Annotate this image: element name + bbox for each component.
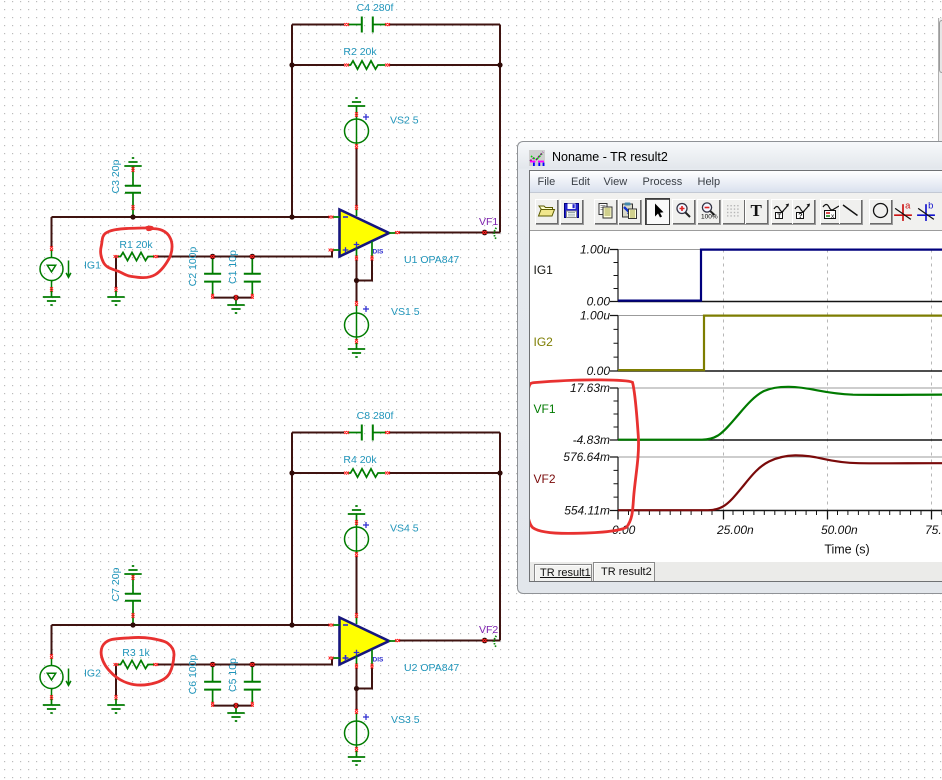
axis labels IG2 panel	[580, 309, 610, 379]
scrollbar fragment at top-right edge of schematic editor	[938, 18, 942, 141]
node: junction cap gnd	[233, 295, 239, 301]
svg-text:17.63m: 17.63m	[570, 381, 610, 395]
voltage probe VF2 arc	[494, 636, 496, 648]
wire: feedback right vertical down to output	[499, 433, 501, 641]
pin marker C7 top	[132, 575, 135, 580]
wire: op-amp output to feedback node	[398, 640, 500, 642]
pin marker IG1 bottom	[50, 287, 53, 292]
svg-text:IG2: IG2	[534, 335, 554, 349]
pin marker C4 left	[344, 23, 349, 26]
svg-text:C8 280f: C8 280f	[357, 410, 394, 422]
ground under IG1	[43, 291, 60, 305]
pin marker C3 bottom	[132, 205, 135, 210]
pin marker C7 bottom	[132, 613, 135, 618]
svg-text:R3 1k: R3 1k	[122, 647, 150, 659]
wire: R2 right	[389, 64, 500, 66]
wire: IG2 top lead	[51, 625, 53, 655]
current source IG1	[40, 250, 71, 292]
ground under IG2	[43, 699, 60, 713]
pin marker C1 bottom	[251, 294, 254, 299]
pin marker R3 ground end	[115, 695, 118, 700]
svg-text:VS2 5: VS2 5	[390, 115, 419, 127]
ground under C2/C1	[227, 299, 244, 313]
wire: C8 right to feedback right vertical	[389, 432, 500, 434]
svg-text:50.00n: 50.00n	[821, 523, 858, 537]
pin marker C2 bottom	[211, 294, 214, 299]
wire: VS2 to op-amp V+ pin	[356, 148, 358, 206]
pin marker R1 right	[153, 255, 158, 258]
wire: VS4 to op-amp V+ pin	[356, 556, 358, 614]
pin marker VS3 top	[355, 709, 358, 714]
svg-text:?: ?	[798, 213, 802, 220]
wire: op-amp output to feedback node	[398, 232, 500, 234]
pin marker U2 inverting input	[329, 624, 334, 627]
wire: IG1 top lead	[51, 217, 53, 247]
pin marker VS1 bottom	[355, 339, 358, 344]
ground under VS3	[348, 751, 365, 765]
ground under C6/C5	[227, 707, 244, 721]
capacitor C7	[125, 580, 141, 623]
pin marker U1 non-inverting input	[329, 249, 334, 252]
svg-text:0.00: 0.00	[587, 364, 611, 378]
wire: C4 right to feedback right vertical	[389, 24, 500, 26]
node: junction V- net	[354, 278, 359, 283]
svg-text:C5 10p: C5 10p	[227, 658, 239, 692]
axis frame IG2 panel	[610, 316, 942, 372]
pin marker VS4 top	[355, 520, 358, 525]
wire: input net from IG2 to op-amp inverting input	[52, 624, 331, 626]
pin marker C8 right	[385, 431, 390, 434]
capacitor C3	[125, 172, 141, 215]
wire: to C4 left	[292, 24, 344, 26]
svg-text:R2 20k: R2 20k	[343, 46, 377, 58]
svg-text:VF2: VF2	[479, 624, 498, 636]
wire: bottom link C6-C5	[213, 705, 253, 707]
pin marker IG2 top	[50, 654, 53, 659]
svg-text:576.64m: 576.64m	[563, 450, 610, 464]
window icon	[529, 150, 545, 166]
op-amp U2	[332, 616, 397, 667]
wire: DIS pin jog	[357, 667, 373, 689]
annotation: red hand-drawn loop around VF1/VF2 axis labels	[527, 380, 639, 534]
capacitor C1	[244, 258, 261, 296]
pin marker C3 top	[132, 167, 135, 172]
pin marker U2 non-inverting input	[329, 657, 334, 660]
node: junction Cs/input	[130, 214, 135, 219]
svg-text:Time (s): Time (s)	[824, 543, 869, 557]
svg-text:VS1 5: VS1 5	[391, 306, 420, 318]
svg-text:100%: 100%	[701, 214, 718, 221]
waveform IG1 trace	[618, 250, 942, 301]
pin marker U1 output	[395, 231, 400, 234]
waveform VF1 trace	[618, 387, 942, 440]
wire: to R4 left	[292, 472, 344, 474]
wire: R1 left lead down	[115, 257, 117, 289]
pin marker VS4 bottom	[355, 552, 358, 557]
annotation: red hand-drawn circle around R1	[101, 227, 172, 278]
waveform IG2 trace	[618, 316, 942, 371]
svg-text:25.00n: 25.00n	[716, 523, 754, 537]
svg-text:C4 280f: C4 280f	[357, 2, 394, 14]
plus mark VS4	[363, 522, 369, 528]
op-amp U1	[332, 208, 397, 259]
wire: to R2 left	[292, 64, 344, 66]
dashed time gridlines	[724, 250, 932, 512]
pin marker C6 bottom	[211, 702, 214, 707]
pin marker R2 right	[385, 64, 390, 67]
node: junction C1 top	[250, 662, 256, 668]
svg-text:DIS: DIS	[373, 249, 385, 256]
svg-text:1.00u: 1.00u	[580, 309, 610, 323]
svg-text:1.00u: 1.00u	[580, 243, 610, 257]
pin marker C8 left	[344, 431, 349, 434]
ground above C7	[124, 566, 141, 580]
svg-text:C2 100p: C2 100p	[187, 246, 199, 286]
resistor R1	[118, 252, 154, 260]
pin marker R1 left	[114, 255, 119, 258]
voltage source VS2	[345, 112, 369, 146]
pin marker U2 DIS	[371, 664, 374, 669]
time axis labels	[612, 523, 942, 537]
pin marker C5 bottom	[251, 702, 254, 707]
wire: R4 right	[389, 472, 500, 474]
node: junction V- net	[354, 686, 359, 691]
node: junction feedback/input	[289, 214, 294, 219]
pin marker R3 right	[153, 663, 158, 666]
waveform VF2 trace	[618, 455, 942, 510]
pin marker VS2 bottom	[355, 144, 358, 149]
svg-text:C3 20p: C3 20p	[110, 159, 122, 193]
annotation: red hand-drawn circle around R3	[101, 637, 174, 685]
svg-text:b: b	[928, 200, 933, 210]
node: junction cap gnd	[233, 703, 239, 709]
node: junction probe tap	[482, 230, 488, 236]
pin marker U2 V+	[355, 613, 358, 618]
wire: bottom link C2-C1	[213, 297, 253, 299]
ground above C3	[124, 158, 141, 172]
pin marker R4 right	[385, 472, 390, 475]
wire: feedback left vertical	[291, 433, 293, 626]
svg-text:T: T	[750, 201, 762, 220]
capacitor C5	[244, 666, 261, 704]
wire: to C8 left	[292, 432, 344, 434]
wire: op-amp V- pin down to VS3	[356, 667, 358, 710]
pin marker R2 left	[344, 64, 349, 67]
svg-text:C6 100p: C6 100p	[187, 654, 199, 694]
capacitor C6	[204, 666, 221, 704]
node: junction Rf right	[497, 470, 502, 475]
plus mark VS1	[363, 306, 369, 312]
svg-text:IG1: IG1	[84, 260, 101, 272]
voltage source VS1	[345, 305, 369, 340]
svg-text:T: T	[777, 213, 781, 220]
node: junction Rf left	[289, 470, 294, 475]
TR result2 window	[517, 141, 942, 594]
wire: feedback left vertical	[291, 25, 293, 218]
voltage source VS4	[345, 520, 369, 554]
pin marker VS1 top	[355, 301, 358, 306]
capacitor C4	[348, 17, 386, 33]
wire: input net from IG1 to op-amp inverting input	[52, 216, 331, 218]
svg-text:U2 OPA847: U2 OPA847	[404, 662, 459, 674]
axis frame IG1 panel	[610, 250, 942, 302]
svg-text:0.00: 0.00	[587, 295, 611, 309]
wire: op-amp V- pin down to VS1	[356, 259, 358, 302]
pin marker C4 right	[385, 23, 390, 26]
pin marker U2 output	[395, 639, 400, 642]
wire: feedback right vertical down to output	[499, 25, 501, 233]
svg-text:VF2: VF2	[534, 472, 556, 486]
resistor R3	[118, 660, 154, 668]
svg-text:C7 20p: C7 20p	[110, 567, 122, 601]
wire: DIS pin jog	[357, 259, 373, 281]
pin marker VS2 top	[355, 112, 358, 117]
pin marker U1 V+	[355, 205, 358, 210]
pin marker R3 left	[114, 663, 119, 666]
voltage probe VF1 arc	[494, 228, 496, 240]
svg-text:a: a	[905, 200, 911, 210]
resistor R2	[348, 61, 385, 69]
wire: R3 left lead down	[115, 665, 117, 697]
node: junction probe tap	[482, 638, 488, 644]
pin marker R4 left	[344, 472, 349, 475]
time axis ticks	[618, 511, 942, 520]
pin marker U2 V-	[355, 664, 358, 669]
capacitor C2	[204, 258, 221, 296]
pin marker IG2 bottom	[50, 695, 53, 700]
svg-text:IG1: IG1	[534, 263, 554, 277]
ground under R3	[107, 699, 124, 713]
ground under VS1	[348, 343, 365, 357]
axis labels VF2 panel	[563, 450, 610, 518]
svg-text:C1 10p: C1 10p	[227, 250, 239, 284]
ground above VS2	[348, 98, 365, 112]
capacitor C8	[348, 425, 386, 441]
svg-text:R4 20k: R4 20k	[343, 454, 377, 466]
pin marker U1 V-	[355, 256, 358, 261]
svg-text:R1 20k: R1 20k	[119, 239, 153, 251]
node: junction C2 top	[210, 254, 216, 260]
svg-text:75.: 75.	[925, 523, 942, 537]
node: junction Rf right	[497, 62, 502, 67]
plus mark VS2	[363, 114, 369, 120]
svg-text:VS4 5: VS4 5	[390, 523, 419, 535]
resistor R4	[348, 469, 385, 477]
axis labels IG1 panel	[580, 243, 610, 309]
svg-text:VF1: VF1	[534, 402, 556, 416]
wire: non-inverting input net from R1	[157, 251, 332, 257]
axis frame VF1 panel	[610, 388, 942, 440]
plus mark VS3	[363, 714, 369, 720]
node: junction C2 top	[210, 662, 216, 668]
current source IG2	[40, 658, 71, 700]
pin marker U1 DIS	[371, 256, 374, 261]
ground under R1	[107, 291, 124, 305]
svg-text:IG2: IG2	[84, 668, 101, 680]
svg-text:U1 OPA847: U1 OPA847	[404, 254, 459, 266]
ground above VS4	[348, 506, 365, 520]
axis labels VF1 panel	[570, 381, 610, 447]
pin marker R1 ground end	[115, 287, 118, 292]
svg-text:554.11m: 554.11m	[564, 504, 610, 518]
pin marker VS3 bottom	[355, 747, 358, 752]
axis frame VF2 panel	[610, 457, 942, 511]
node: junction Cs/input	[130, 622, 135, 627]
node: junction C1 top	[250, 254, 256, 260]
svg-text:-4.83m: -4.83m	[573, 433, 610, 447]
node: junction Rf left	[289, 62, 294, 67]
svg-text:DIS: DIS	[373, 657, 385, 664]
pin marker U1 inverting input	[329, 216, 334, 219]
svg-text:VF1: VF1	[479, 216, 498, 228]
node: junction feedback/input	[289, 622, 294, 627]
voltage source VS3	[345, 713, 369, 748]
svg-text:VS3 5: VS3 5	[391, 714, 420, 726]
pin marker IG1 top	[50, 246, 53, 251]
wire: non-inverting input net from R3	[157, 659, 332, 665]
